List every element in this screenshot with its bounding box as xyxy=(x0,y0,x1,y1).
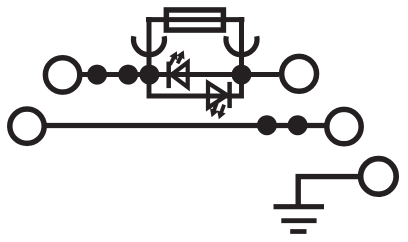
LED D1 emission arrow b xyxy=(176,50,184,63)
wire: row-1 conductor xyxy=(80,72,279,77)
node: junction dot left (fuse tap) xyxy=(139,65,159,85)
wire: left fuse riser xyxy=(147,22,152,75)
node: junction dot right (fuse tap) xyxy=(232,65,252,85)
wire: row-2 conductor xyxy=(45,123,327,128)
wire: right fuse riser xyxy=(239,22,244,75)
node: bridge contact dot 4 xyxy=(288,115,308,135)
fuse F1 body xyxy=(166,10,223,30)
node: bridge contact dot 3 xyxy=(257,115,277,135)
node: bridge contact dot 2 xyxy=(118,65,138,85)
terminal T2 (upper-right contact circle) xyxy=(282,56,317,91)
LED D1 cathode bar xyxy=(166,62,171,89)
terminal T3 (lower-left contact circle) xyxy=(10,109,44,143)
LED D2 emission arrow b xyxy=(217,105,226,120)
fuse clip contact right xyxy=(226,36,257,55)
LED D2 triangle xyxy=(208,83,227,108)
ground symbol bar 1 xyxy=(274,204,325,209)
terminal T5 (ground contact circle) xyxy=(361,159,397,195)
ground symbol bar 3 xyxy=(290,229,306,234)
fuse clip contact left xyxy=(134,36,165,55)
ground symbol bar 2 xyxy=(281,218,316,223)
LED D2 emission arrow a xyxy=(210,103,219,118)
wire: lower LED branch xyxy=(149,75,242,97)
LED D1 emission arrow a xyxy=(169,51,177,65)
wire: fuse top link xyxy=(146,17,244,23)
terminal T4 (lower-right contact circle) xyxy=(327,109,361,143)
LED D2 cathode bar xyxy=(227,82,232,108)
node: bridge contact dot 1 xyxy=(87,65,107,85)
terminal T1 (upper-left contact circle) xyxy=(45,58,79,92)
wire: ground link xyxy=(298,177,358,206)
LED D1 triangle xyxy=(171,62,187,87)
